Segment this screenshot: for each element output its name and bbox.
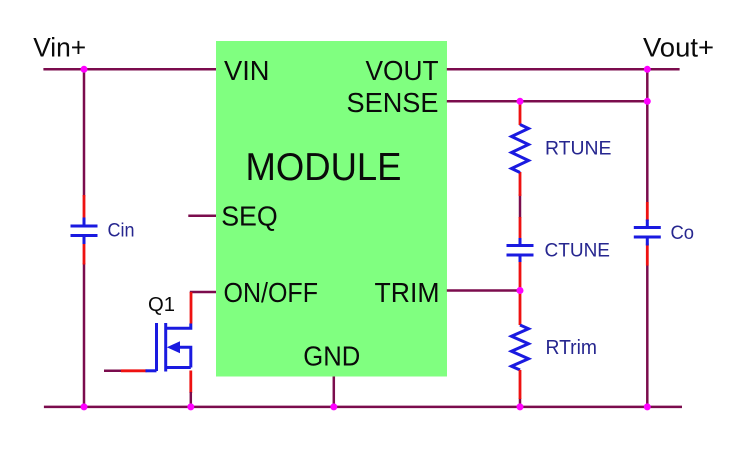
wire bottom ground rail (44, 406, 682, 409)
svg-text:SEQ: SEQ (221, 200, 278, 231)
svg-text:RTrim: RTrim (546, 337, 598, 359)
node ground Q1 junction (187, 403, 194, 410)
svg-text:TRIM: TRIM (375, 277, 440, 308)
capacitor CTUNE (507, 238, 534, 262)
capacitor Co (634, 220, 661, 246)
svg-text:Vout+: Vout+ (643, 32, 714, 62)
node trim junction (517, 287, 524, 294)
svg-text:GND: GND (303, 340, 360, 371)
transistor Q1 MOSFET (157, 323, 191, 372)
wire TRIM pin (447, 289, 520, 292)
wire tune/trim vertical chain (519, 194, 522, 218)
wire GND stub (333, 377, 336, 407)
node ground Cin junction (81, 403, 88, 410)
wire right vertical output rail (646, 69, 649, 203)
svg-text:CTUNE: CTUNE (545, 240, 611, 262)
wire SENSE to output rail (447, 100, 648, 103)
op-amp U1 MODULE body (216, 41, 447, 377)
svg-text:VOUT: VOUT (366, 55, 439, 86)
capacitor Cin (71, 218, 98, 245)
resistor RTrim lower red lead (519, 370, 522, 399)
node ground Co junction (644, 403, 651, 410)
node sense-tune junction (517, 98, 524, 105)
svg-text:Cin: Cin (108, 221, 135, 242)
svg-text:MODULE: MODULE (246, 146, 402, 189)
svg-text:Q1: Q1 (148, 293, 175, 316)
wire left vertical input rail (83, 69, 86, 196)
svg-text:Vin+: Vin+ (33, 33, 86, 63)
svg-text:ON/OFF: ON/OFF (224, 277, 319, 308)
wire SEQ stub (188, 214, 216, 217)
node sense-output junction (644, 98, 651, 105)
wire VOUT to Vout+ (447, 68, 680, 71)
node Vin junction (81, 66, 88, 73)
svg-text:VIN: VIN (224, 55, 270, 86)
resistor RTrim (512, 325, 529, 370)
wire MOSFET gate lead (104, 370, 122, 373)
wire MOSFET source to rail (189, 371, 192, 394)
wire MOSFET drain drop (190, 292, 193, 324)
capacitor Co red pin leads (646, 202, 649, 221)
wire Vin+ to VIN pin (43, 68, 216, 71)
svg-text:Co: Co (671, 222, 695, 244)
capacitor CTUNE red pin leads (519, 217, 522, 240)
node ground RTrim junction (517, 403, 524, 410)
capacitor Cin red pin leads (83, 195, 86, 219)
transistor Q1 arrow (167, 341, 180, 353)
resistor RTUNE red pin leads (519, 103, 522, 125)
svg-text:SENSE: SENSE (347, 87, 439, 118)
node ground GND junction (330, 403, 337, 410)
svg-text:RTUNE: RTUNE (545, 137, 612, 159)
node Vout junction (644, 66, 651, 73)
resistor RTUNE (512, 125, 529, 173)
wire ON/OFF pin (190, 291, 216, 294)
